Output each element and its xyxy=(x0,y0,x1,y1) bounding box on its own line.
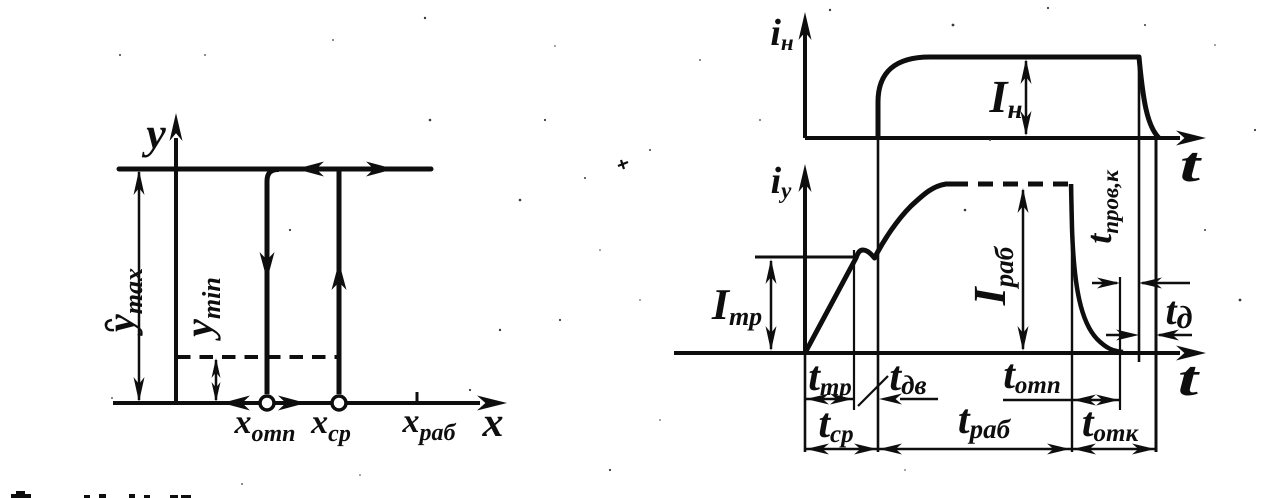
right arrow on x-axis xyxy=(278,396,306,411)
scan mark asterisk xyxy=(618,160,628,169)
label t_prov_k xyxy=(1079,169,1123,244)
label t top xyxy=(1180,136,1203,192)
label I_rab xyxy=(964,245,1019,306)
x_sr node circle xyxy=(332,396,346,410)
label t_otk xyxy=(1082,400,1140,447)
label x_rab xyxy=(402,403,457,446)
x-axis xyxy=(113,396,507,411)
label i_n xyxy=(770,12,794,55)
t_d arrows xyxy=(1106,330,1192,341)
bump reference line xyxy=(853,250,855,410)
t_sr dimension xyxy=(805,444,878,455)
label t_tr xyxy=(808,354,852,401)
left arrow on x-axis xyxy=(222,396,258,411)
label t bottom xyxy=(1178,350,1201,406)
I_n dimension arrow xyxy=(1021,59,1032,136)
caption fragment 1 xyxy=(11,491,31,498)
x_otp vertical branch xyxy=(267,169,279,394)
label I_tr xyxy=(711,280,762,331)
scan mark squiggle xyxy=(106,320,114,330)
caption fragment 4 xyxy=(170,495,191,498)
reference line arc end xyxy=(1155,138,1158,452)
label x_sr xyxy=(310,404,351,447)
label t_otp xyxy=(1003,352,1061,399)
i_y drop curve xyxy=(1071,184,1123,352)
I_tr level line xyxy=(755,256,857,259)
label I_n xyxy=(989,71,1023,124)
right arrow on top line xyxy=(366,162,394,177)
t_prov arrows xyxy=(1092,278,1190,289)
I_tr dimension arrow xyxy=(766,259,777,351)
y_max top line xyxy=(119,167,431,172)
i_y rising curve xyxy=(805,184,953,353)
label x_otp xyxy=(233,404,295,447)
t_otk dimension xyxy=(1071,444,1156,455)
i_y drop extension line xyxy=(1071,184,1073,452)
svg-text:х: х xyxy=(482,400,504,446)
label t_d xyxy=(1166,288,1193,335)
left arrow on top line xyxy=(296,162,324,177)
label y_max xyxy=(98,268,148,336)
y_max dimension arrow xyxy=(134,170,145,402)
label y xyxy=(141,109,166,158)
y_min dashed level line xyxy=(177,355,339,359)
label t_dv xyxy=(889,354,926,400)
t_otp dimension xyxy=(1003,395,1120,406)
x_otp node circle xyxy=(260,396,274,410)
label t_sr xyxy=(818,401,853,448)
t-axis bottom xyxy=(674,346,1206,361)
caption fragment 3 xyxy=(129,494,150,498)
x_sr vertical branch xyxy=(337,169,342,394)
x_rab tick xyxy=(416,392,419,402)
y_min dimension arrow xyxy=(212,358,221,402)
decay end reference line xyxy=(1119,277,1121,410)
svg-text:t: t xyxy=(1178,350,1201,406)
label y_min xyxy=(176,277,226,341)
label x xyxy=(482,400,504,446)
i_n axis xyxy=(799,12,812,138)
t_tr dimension xyxy=(805,394,854,405)
i_n curve xyxy=(878,57,1159,138)
up arrow on x_sr branch xyxy=(332,262,347,290)
i_y flat dashed xyxy=(953,182,1071,187)
label t_rab xyxy=(958,397,1012,444)
svg-text:t: t xyxy=(1180,136,1203,192)
t-axis top xyxy=(805,131,1206,146)
label i_y xyxy=(771,160,793,203)
i_y axis extension below xyxy=(804,353,807,452)
reference line t_dv xyxy=(877,138,880,452)
i_y axis xyxy=(799,164,812,353)
t_rab dimension xyxy=(878,444,1071,455)
t_dv leader line xyxy=(858,376,888,406)
caption fragment 2 xyxy=(84,494,106,498)
I_rab dimension arrow xyxy=(1018,188,1029,351)
down arrow on x_otp branch xyxy=(260,252,275,280)
t_dv arrow xyxy=(879,394,938,405)
y-axis xyxy=(170,113,183,403)
reference line i_n drop xyxy=(1138,57,1141,362)
